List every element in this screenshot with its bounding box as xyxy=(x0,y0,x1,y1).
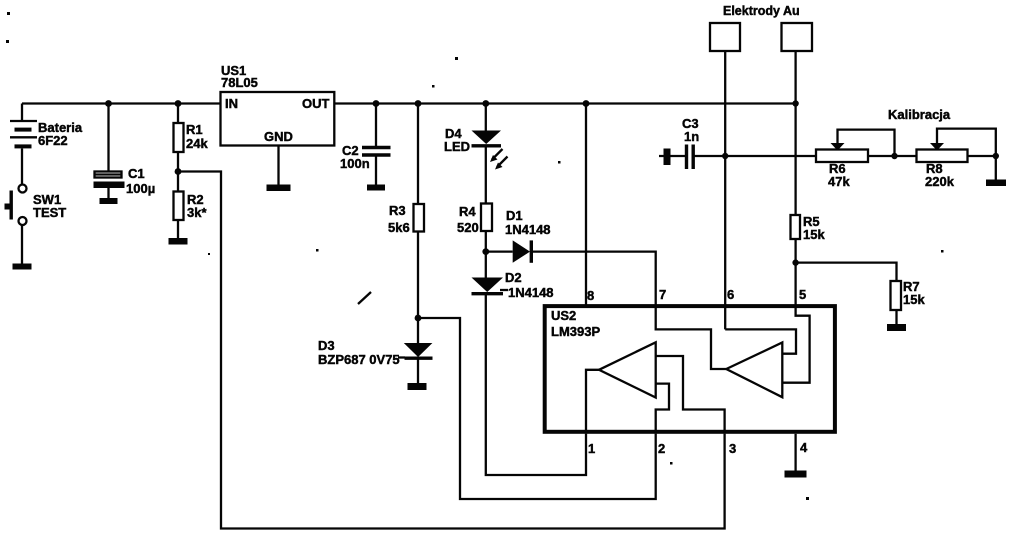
wire C1 bottom lead xyxy=(107,188,109,198)
svg-text:4: 4 xyxy=(800,440,808,455)
svg-text:Kalibracja: Kalibracja xyxy=(888,107,951,122)
capacitor C2 100n xyxy=(362,148,391,156)
node dot R6-R8 xyxy=(891,153,897,159)
node dot R5-R7 xyxy=(792,259,798,265)
wire node divider to pin3 net (down-right-up big loop) xyxy=(178,172,725,529)
node dot R3-D3 xyxy=(415,315,422,322)
node dot rail-right-electrode xyxy=(792,100,798,106)
node dot R8-ground xyxy=(993,153,999,159)
resistor R5 15k xyxy=(791,215,801,239)
node dot rail-D4 xyxy=(482,100,489,107)
wire switch to ground xyxy=(21,225,23,264)
ground under pin4 xyxy=(785,471,807,478)
op-amp comparator B triangle xyxy=(726,343,782,398)
wire pin1 to comparator A output tip xyxy=(586,370,599,434)
svg-text:D2: D2 xyxy=(505,270,522,285)
electrode left box (Elektrody Au) xyxy=(710,23,740,51)
resistor R4 520 xyxy=(481,204,492,232)
node dot rail-R3 xyxy=(415,100,422,107)
wire C1 top lead xyxy=(107,104,109,172)
resistor R3 5k6 xyxy=(414,204,425,232)
svg-text:2: 2 xyxy=(658,441,665,456)
capacitor C3 1n with input terminal xyxy=(664,145,694,170)
ground under C1 xyxy=(100,198,118,204)
ground under D3 xyxy=(408,383,427,390)
wire pin8 from rail xyxy=(585,104,587,307)
svg-text:24k: 24k xyxy=(186,136,208,151)
diode D1 1N4148 xyxy=(513,240,532,262)
resistor R1 24k xyxy=(174,123,184,152)
diode D4 LED xyxy=(472,131,508,170)
wire left electrode column to pin6 xyxy=(724,51,726,329)
svg-text:R3: R3 xyxy=(389,203,406,218)
wire C3 terminal to plate xyxy=(659,155,686,157)
wire pin7 to comparator B tip xyxy=(656,306,727,369)
svg-text:IN: IN xyxy=(225,96,238,111)
svg-text:15k: 15k xyxy=(903,292,925,307)
wire C3 plate to electrode node and R6 xyxy=(694,155,817,157)
wire right electrode column to R5 xyxy=(794,51,796,215)
svg-text:520: 520 xyxy=(457,220,479,235)
wire R5 bottom to node xyxy=(794,239,796,263)
svg-text:47k: 47k xyxy=(828,174,850,189)
ground under US1 xyxy=(267,185,291,192)
svg-text:78L05: 78L05 xyxy=(221,75,258,90)
wire R6 to R8 xyxy=(868,155,917,157)
ground under R2 xyxy=(169,238,188,245)
wire R4 to node xyxy=(485,231,487,278)
svg-text:3k*: 3k* xyxy=(187,205,207,220)
wire D4 top lead xyxy=(485,104,487,131)
potentiometer R6 47k xyxy=(816,143,868,162)
svg-text:100µ: 100µ xyxy=(126,181,155,196)
electrode right box (Elektrody Au) xyxy=(782,23,813,51)
svg-text:R4: R4 xyxy=(459,204,476,219)
wire R3 to D3 xyxy=(417,232,419,344)
switch SW1 TEST xyxy=(5,185,27,226)
wire R7 to ground xyxy=(895,310,897,324)
svg-text:LED: LED xyxy=(444,139,470,154)
svg-text:C1: C1 xyxy=(128,166,145,181)
svg-text:US2: US2 xyxy=(551,308,576,323)
wire US1 GND lead xyxy=(277,146,279,185)
svg-text:5: 5 xyxy=(799,287,806,302)
svg-text:GND: GND xyxy=(264,129,293,144)
wire node D3 to pin2 net xyxy=(418,318,656,499)
wire C2 bottom lead xyxy=(375,156,377,185)
wire node R5 to R7 xyxy=(796,263,897,281)
stray scan mark diagonal xyxy=(358,292,371,304)
svg-text:TEST: TEST xyxy=(33,205,66,220)
svg-text:LM393P: LM393P xyxy=(551,324,600,339)
wire R8 right terminal xyxy=(968,156,996,180)
resistor R2 3k* xyxy=(174,192,184,221)
wire D2 cathode to pin1 net xyxy=(486,295,586,475)
node dot C3-left-electrode xyxy=(722,153,728,159)
svg-text:15k: 15k xyxy=(803,227,825,242)
svg-text:6F22: 6F22 xyxy=(38,133,68,148)
wire pin3 to comparator A input xyxy=(656,356,725,434)
wire node to pin5 xyxy=(794,263,796,306)
diode D2 1N4148 xyxy=(472,278,509,294)
svg-text:OUT: OUT xyxy=(302,96,330,111)
svg-text:3: 3 xyxy=(729,441,736,456)
wire R8 wiper loop xyxy=(937,129,996,156)
wire R1-R2 link xyxy=(177,152,179,192)
wire main supply rail left segment xyxy=(22,102,221,104)
node dot R1-R2 divider xyxy=(175,168,182,175)
regulator US1 78L05 box xyxy=(221,92,335,146)
svg-text:220k: 220k xyxy=(925,174,955,189)
svg-text:1N4148: 1N4148 xyxy=(508,285,554,300)
wire C2 top lead xyxy=(375,104,377,147)
wire R1 top lead xyxy=(177,104,179,124)
svg-text:D3: D3 xyxy=(318,338,335,353)
svg-text:1: 1 xyxy=(588,441,595,456)
node dot R4-D1-D2 xyxy=(482,248,489,255)
wire R2 to ground xyxy=(177,220,179,238)
svg-text:D1: D1 xyxy=(506,208,523,223)
svg-text:6: 6 xyxy=(727,287,734,302)
wire D1 cathode to pin7 top xyxy=(532,252,656,306)
wire pin6 to comparator B upper input xyxy=(725,329,796,353)
wire pin5 to comparator B lower input xyxy=(782,306,809,383)
wire main supply rail right segment xyxy=(334,102,795,104)
wire battery to switch xyxy=(21,149,23,185)
wire D3 to ground xyxy=(417,360,419,384)
wire R3 top lead xyxy=(417,104,419,205)
battery BAT (Bateria 6F22) xyxy=(10,121,37,148)
capacitor C1 100u electrolytic xyxy=(94,172,125,189)
svg-text:BZP687 0V75: BZP687 0V75 xyxy=(318,352,400,367)
resistor R7 15k xyxy=(891,281,902,310)
svg-text:Elektrody Au: Elektrody Au xyxy=(723,4,800,18)
ground under C2 xyxy=(367,185,385,191)
node dot rail-C2 xyxy=(373,100,380,107)
node dot rail-C1 xyxy=(105,100,112,107)
wire battery top lead xyxy=(21,104,23,122)
svg-text:7: 7 xyxy=(659,287,666,302)
svg-text:1N4148: 1N4148 xyxy=(505,222,551,237)
node dot rail-R1 xyxy=(175,100,182,107)
ground under R7 xyxy=(887,324,906,331)
wire D1 anode node to pin7 xyxy=(486,250,513,252)
svg-text:100n: 100n xyxy=(340,156,370,171)
wire D4 to R4 xyxy=(485,147,487,204)
wire pin4 to ground xyxy=(794,434,796,471)
potentiometer R8 220k xyxy=(917,143,968,162)
svg-text:R1: R1 xyxy=(186,122,203,137)
diode D3 zener BZP687 0V75 xyxy=(398,343,433,358)
op-amp comparator A triangle xyxy=(599,342,656,397)
op-amp US2 LM393P package box xyxy=(545,306,835,432)
ground right of R8 xyxy=(986,180,1006,187)
ground under SW1 xyxy=(13,264,32,270)
svg-text:1n: 1n xyxy=(684,129,699,144)
svg-text:5k6: 5k6 xyxy=(388,220,410,235)
node dot rail-pin8 xyxy=(583,100,590,107)
wire pin2 hook to comparator A input xyxy=(656,384,669,434)
wire R6 wiper loop xyxy=(838,130,895,156)
svg-text:8: 8 xyxy=(587,288,594,303)
